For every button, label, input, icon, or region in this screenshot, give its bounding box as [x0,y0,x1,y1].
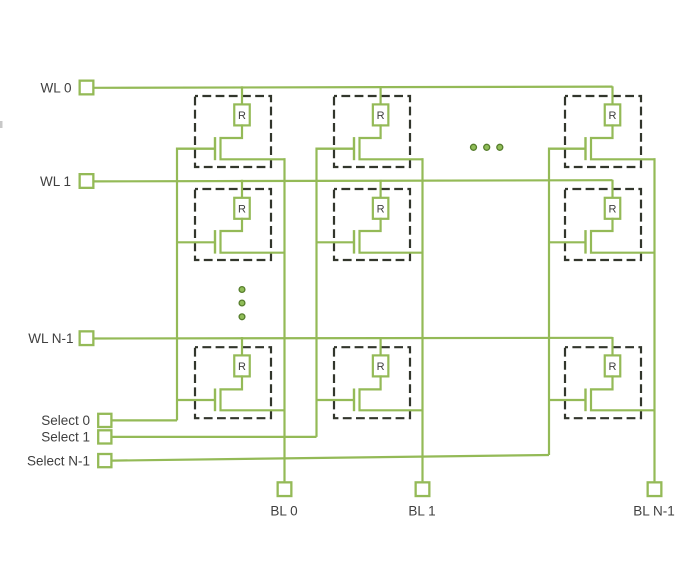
terminal Select 1 [98,430,111,443]
wire gate to select rail (cell row WLN-1 / col 0) [176,399,215,401]
wire WL drop to resistor (cell row WL1 / col N-1) [611,180,613,199]
wire resistor-drain-source to bit line (cell row WL0 / col 1) [360,124,424,159]
wire WL drop to resistor (cell row WLN-1 / col 1) [380,337,382,356]
resistor R (cell row WL0 / col 0) [234,104,250,125]
wire WL drop to resistor (cell row WL1 / col 1) [380,180,382,199]
svg-text:BL 1: BL 1 [408,504,435,519]
wire WL drop to resistor (cell row WL0 / col 1) [380,86,382,105]
transistor gate bar (cell row WLN-1 / col 0) [214,389,216,412]
resistor R (cell row WL1 / col 1) [373,198,389,219]
wire Select N-1 to column select rail [113,455,550,461]
wire gate stub (cell row WL0 / col 1) [317,148,355,150]
wire select rail column N-1 [549,149,586,455]
wire bit line BL 0 [283,158,285,481]
wire resistor-drain-source to bit line (cell row WL1 / col 1) [360,218,424,253]
wire Select 1 to column select rail [113,436,317,438]
memory cell outline: cell row WL1 / col 0 [195,189,271,260]
memory cell outline: cell row WL1 / col 1 [334,189,410,260]
memory cell outline: cell row WL1 / col N-1 [565,189,641,260]
svg-text:WL 1: WL 1 [40,174,71,189]
transistor gate bar (cell row WL1 / col N-1) [584,230,586,254]
transistor gate bar (cell row WLN-1 / col 1) [353,389,355,412]
wire word line WL 0 [94,87,612,88]
wire Select 0 to column select rail [113,419,178,421]
resistor R (cell row WLN-1 / col 1) [373,355,389,376]
memory cell outline: cell row WLN-1 / col 1 [334,347,410,418]
resistor R (cell row WL1 / col 0) [234,198,250,219]
wire select rail column 1 [317,149,355,437]
memory cell outline: cell row WLN-1 / col N-1 [565,347,641,418]
resistor R (cell row WLN-1 / col 0) [234,355,250,376]
wire WL drop to resistor (cell row WL0 / col N-1) [611,86,613,105]
transistor gate bar (cell row WL0 / col N-1) [584,137,586,160]
wire WL drop to resistor (cell row WL1 / col 0) [241,180,243,199]
wire gate to select rail (cell row WLN-1 / col 1) [316,399,355,401]
wire resistor-drain-source to bit line (cell row WL0 / col 0) [221,124,286,159]
memory cell outline: cell row WLN-1 / col 0 [195,347,271,418]
terminal WL 1 [80,174,94,188]
svg-text:R: R [238,110,246,122]
wire word line WL N-1 [94,337,612,340]
svg-text:R: R [377,110,385,122]
svg-text:Select N-1: Select N-1 [27,453,90,468]
wire gate to select rail (cell row WLN-1 / col N-1) [548,399,586,401]
transistor gate bar (cell row WL0 / col 1) [353,137,355,160]
wire gate stub (cell row WL0 / col N-1) [549,148,586,150]
stray mark left edge [0,121,3,128]
horizontal ellipsis dots (more columns) [471,144,503,150]
terminal BL 0 [278,482,292,496]
svg-text:Select 1: Select 1 [41,430,90,445]
resistor R (cell row WL0 / col 1) [373,104,389,125]
resistor R (cell row WL1 / col N-1) [605,198,621,219]
memory cell outline: cell row WL0 / col N-1 [565,96,641,167]
svg-text:R: R [238,361,246,373]
wire resistor-drain-source to bit line (cell row WL0 / col N-1) [591,124,656,159]
svg-text:WL N-1: WL N-1 [28,331,73,346]
wire WL drop to resistor (cell row WLN-1 / col N-1) [611,337,613,356]
terminal WL N-1 [80,331,94,345]
wire word line WL 1 [94,180,612,181]
terminal BL 1 [416,482,430,496]
wire bit line BL N-1 [653,158,655,481]
svg-text:WL 0: WL 0 [40,80,71,95]
svg-text:BL 0: BL 0 [270,504,297,519]
wire gate to select rail (cell row WL1 / col 0) [176,241,215,243]
wire gate to select rail (cell row WL1 / col 1) [316,241,355,243]
terminal BL N-1 [648,482,662,496]
svg-text:R: R [609,203,617,215]
svg-text:BL N-1: BL N-1 [633,504,675,519]
transistor gate bar (cell row WL1 / col 1) [353,230,355,254]
wire gate to select rail (cell row WL1 / col N-1) [548,241,586,243]
wire WL drop to resistor (cell row WLN-1 / col 0) [241,337,243,356]
wire select rail column 0 [177,149,215,421]
terminal Select N-1 [98,454,111,467]
transistor gate bar (cell row WL1 / col 0) [214,230,216,254]
wire bit line BL 1 [421,158,423,481]
resistor R (cell row WL0 / col N-1) [605,104,621,125]
svg-text:R: R [377,361,385,373]
svg-text:R: R [609,110,617,122]
wire resistor-drain-source to bit line (cell row WL1 / col N-1) [591,218,656,253]
wire resistor-drain-source to bit line (cell row WL1 / col 0) [221,218,286,253]
wire resistor-drain-source to bit line (cell row WLN-1 / col 1) [360,375,424,410]
svg-text:Select 0: Select 0 [41,413,90,428]
memory cell outline: cell row WL0 / col 1 [334,96,410,167]
svg-text:R: R [238,203,246,215]
terminal WL 0 [80,81,94,95]
resistor R (cell row WLN-1 / col N-1) [605,355,621,376]
wire resistor-drain-source to bit line (cell row WLN-1 / col N-1) [591,375,656,410]
wire WL drop to resistor (cell row WL0 / col 0) [241,86,243,105]
transistor gate bar (cell row WL0 / col 0) [214,137,216,160]
vertical ellipsis dots (more rows) [239,287,245,320]
terminal Select 0 [98,414,111,427]
memory cell outline: cell row WL0 / col 0 [195,96,271,167]
wire resistor-drain-source to bit line (cell row WLN-1 / col 0) [221,375,286,410]
transistor gate bar (cell row WLN-1 / col N-1) [584,389,586,412]
wire gate stub (cell row WL0 / col 0) [177,148,215,150]
svg-text:R: R [609,361,617,373]
svg-text:R: R [377,203,385,215]
